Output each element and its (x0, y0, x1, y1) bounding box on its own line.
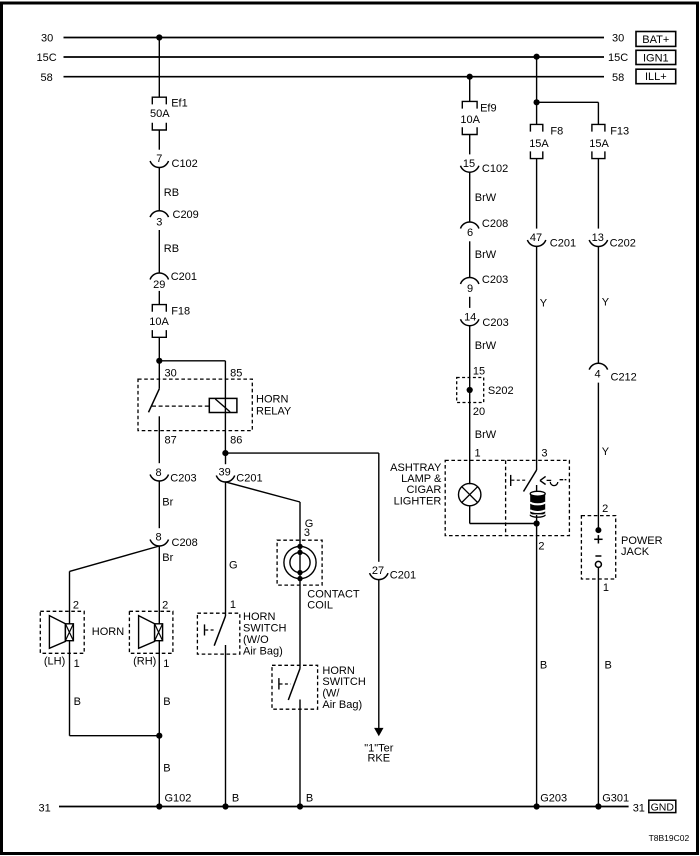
connector C208 pin 6 (460, 222, 478, 228)
wire junction to F13 (597, 102, 599, 124)
horn RH box (129, 611, 173, 653)
svg-text:3: 3 (156, 216, 162, 228)
wire junction to relay coil 85 (159, 360, 225, 362)
svg-text:10A: 10A (460, 114, 480, 126)
svg-text:B: B (232, 793, 239, 805)
wire F8 to C201-47 (536, 159, 538, 229)
svg-text:15C: 15C (608, 52, 628, 64)
svg-text:B: B (163, 763, 170, 775)
wire C203-9 to C203-14 (469, 297, 471, 308)
svg-text:C212: C212 (611, 372, 637, 384)
node bus30 junction (156, 34, 162, 40)
fuse F8 15A (530, 124, 542, 131)
svg-text:BAT+: BAT+ (642, 34, 669, 46)
svg-text:(LH): (LH) (44, 655, 65, 667)
svg-text:15: 15 (473, 366, 485, 378)
svg-text:ILL+: ILL+ (645, 71, 667, 83)
svg-text:3: 3 (541, 448, 547, 460)
relay coil U1 (209, 398, 237, 412)
wire 86 junction to RKE branch (226, 452, 379, 454)
bus 30 (BAT+) (64, 37, 605, 39)
node G102 (156, 803, 162, 809)
svg-text:Br: Br (162, 552, 173, 564)
wire LH to RH link (70, 735, 160, 737)
bus 31 (GND) (59, 806, 629, 808)
svg-text:G301: G301 (602, 793, 629, 805)
wire C102 to C208, colour BrW (469, 172, 471, 222)
connector C203 pin 8 (150, 475, 168, 481)
connector C208 pin 8 (150, 540, 168, 546)
svg-text:BrW: BrW (475, 429, 497, 441)
svg-text:30: 30 (165, 368, 177, 380)
svg-text:15: 15 (463, 158, 475, 170)
horn switch W/ arm (288, 669, 300, 701)
svg-text:30: 30 (612, 33, 624, 45)
svg-text:CIGAR: CIGAR (406, 484, 441, 496)
power jack plus terminal (595, 527, 601, 533)
svg-text:30: 30 (41, 33, 53, 45)
svg-text:Y: Y (602, 297, 610, 309)
svg-text:C203: C203 (482, 317, 508, 329)
connector C201 pin 29 (150, 273, 168, 279)
cigar lighter switch arm (524, 470, 537, 492)
svg-text:Air Bag): Air Bag) (243, 645, 283, 657)
svg-text:C102: C102 (482, 163, 508, 175)
BAT+ box (636, 32, 676, 47)
svg-text:1: 1 (163, 658, 169, 670)
svg-text:3: 3 (304, 527, 310, 539)
svg-text:86: 86 (230, 435, 242, 447)
relay switch fixed contact wire (pin 87) (158, 416, 160, 463)
svg-text:(W/O: (W/O (243, 634, 269, 646)
svg-text:C209: C209 (173, 209, 199, 221)
horn RH speaker (139, 616, 155, 649)
svg-text:2: 2 (162, 600, 168, 612)
svg-text:C201: C201 (390, 570, 416, 582)
node 15C junction (534, 54, 540, 60)
svg-text:C201: C201 (236, 473, 262, 485)
connector C202 pin 13 (589, 240, 607, 246)
svg-text:COIL: COIL (307, 600, 333, 612)
node relay feed junction (156, 358, 162, 364)
svg-text:C201: C201 (550, 238, 576, 250)
horn switch W/O arm (214, 616, 225, 646)
wire LH horn drop (69, 571, 71, 735)
wire 86 junction to C201-39 (225, 453, 227, 464)
wire lighter to ground (536, 515, 538, 807)
svg-text:1: 1 (230, 599, 236, 611)
svg-text:58: 58 (41, 72, 53, 84)
svg-text:27: 27 (372, 565, 384, 577)
contact coil rings (284, 546, 316, 578)
wire Ef1 to C102 (158, 130, 160, 150)
svg-text:15C: 15C (37, 52, 57, 64)
svg-text:HORN: HORN (256, 394, 288, 406)
cigar lighter element stub (536, 485, 538, 492)
svg-text:15A: 15A (529, 138, 549, 150)
svg-text:Y: Y (540, 298, 548, 310)
wire lamp to lighter junction (469, 506, 471, 524)
contact coil box (277, 540, 322, 585)
node bus58 junction (467, 74, 473, 80)
connector C201 pin 39 (216, 476, 234, 482)
svg-text:31: 31 (39, 803, 51, 815)
wire C102 to C209, colour RB (158, 168, 160, 211)
connector C203 pin 9 (460, 277, 478, 283)
node G301 (595, 803, 601, 809)
svg-text:1: 1 (603, 582, 609, 594)
svg-text:IGN1: IGN1 (643, 52, 669, 64)
wire C203-14 to lamp, colour BrW (469, 326, 471, 485)
svg-text:47: 47 (530, 232, 542, 244)
svg-text:ASHTRAY: ASHTRAY (390, 462, 442, 474)
svg-text:58: 58 (612, 72, 624, 84)
svg-text:C203: C203 (170, 473, 196, 485)
wire F13 to C202-13 (597, 159, 599, 229)
fuse F18 10A (152, 305, 166, 312)
connector C201 pin 47 (527, 240, 545, 246)
svg-text:F18: F18 (171, 306, 190, 318)
bus 15C (IGN1) (64, 56, 605, 58)
svg-text:1: 1 (74, 658, 80, 670)
svg-text:C208: C208 (482, 218, 508, 230)
splice S202 (457, 378, 484, 403)
svg-text:50A: 50A (150, 108, 170, 120)
node G203 (534, 803, 540, 809)
wire C208 to RH horn and ground, colour Br (158, 546, 160, 807)
svg-text:BrW: BrW (475, 249, 497, 261)
svg-text:S202: S202 (488, 385, 514, 397)
svg-text:2: 2 (538, 541, 544, 553)
svg-text:20: 20 (473, 406, 485, 418)
svg-text:9: 9 (467, 283, 473, 295)
svg-text:(RH): (RH) (133, 655, 156, 667)
svg-text:BrW: BrW (475, 340, 497, 352)
svg-text:Ef9: Ef9 (480, 103, 497, 115)
svg-text:6: 6 (467, 227, 473, 239)
horn switch (W/O Air Bag) box (197, 613, 239, 654)
svg-text:B: B (74, 696, 81, 708)
svg-text:10A: 10A (149, 316, 169, 328)
svg-text:Br: Br (162, 497, 173, 509)
svg-text:8: 8 (156, 531, 162, 543)
svg-text:C203: C203 (482, 274, 508, 286)
connector C209 pin 3 (150, 211, 168, 217)
svg-text:7: 7 (156, 153, 162, 165)
power jack minus terminal (595, 555, 601, 557)
relay actuating link (dashed) (152, 405, 209, 407)
wire C212 to power jack, colour Y (597, 383, 599, 530)
wire bus30 to fuse Ef1 (158, 38, 160, 98)
svg-text:1: 1 (475, 448, 481, 460)
svg-text:GND: GND (651, 801, 675, 813)
svg-text:13: 13 (592, 232, 604, 244)
wire Ef9 to C102-15 (469, 135, 471, 155)
wire C201-47 to lighter switch, colour Y (536, 246, 538, 470)
svg-text:31: 31 (633, 803, 645, 815)
ashtray lamp bulb (459, 483, 481, 505)
wire 15C to F8 (536, 57, 538, 125)
svg-text:4: 4 (595, 368, 601, 380)
node ground B junction 2 (297, 803, 303, 809)
wire C208 to C203, colour BrW (469, 241, 471, 277)
ILL+ box (636, 69, 676, 84)
svg-text:BrW: BrW (475, 192, 497, 204)
svg-text:SWITCH: SWITCH (243, 622, 286, 634)
svg-text:RB: RB (164, 243, 179, 255)
svg-text:RB: RB (164, 187, 179, 199)
cigar lighter release arrow (540, 476, 546, 484)
svg-text:T8B19C02: T8B19C02 (649, 833, 690, 843)
connector C203 pin 14 (460, 319, 478, 325)
arrow to 1 Ter RKE (374, 728, 383, 736)
svg-text:87: 87 (165, 435, 177, 447)
horn switch (W/ Air Bag) box (272, 665, 318, 709)
node lighter junction (534, 520, 540, 526)
svg-text:B: B (605, 660, 612, 672)
svg-text:LIGHTER: LIGHTER (394, 495, 442, 507)
svg-text:B: B (163, 696, 170, 708)
horn LH box (40, 611, 84, 653)
wire C202 to C212, colour Y (597, 246, 599, 363)
wire contact coil drop, colour G (299, 502, 301, 669)
wire C201-39 to horn switch, colour G (225, 482, 227, 616)
cigar lighter heating element (530, 494, 545, 515)
svg-text:G: G (229, 560, 238, 572)
fuse Ef9 10A (462, 101, 477, 108)
svg-text:14: 14 (464, 312, 476, 324)
svg-text:C208: C208 (172, 537, 198, 549)
fuse F13 15A (592, 124, 605, 131)
ashtray box divider (505, 460, 507, 535)
svg-text:2: 2 (73, 600, 79, 612)
wire C201 to fuse F18 (158, 291, 160, 305)
wire bus58 to fuse Ef9 (469, 77, 471, 102)
svg-text:Y: Y (602, 446, 610, 458)
ashtray lamp & cigar lighter box (445, 460, 569, 535)
svg-text:85: 85 (230, 368, 242, 380)
svg-text:B: B (306, 793, 313, 805)
svg-text:(W/: (W/ (322, 688, 340, 700)
wire F18 to relay (158, 337, 160, 389)
horn switch W/ actuator (278, 678, 280, 689)
node ground B junction 1 (222, 803, 228, 809)
svg-text:C201: C201 (171, 271, 197, 283)
horn switch W/O actuator (204, 624, 206, 635)
wire C209 to C201, colour RB (158, 230, 160, 273)
wire branch to LH horn (diagonal) (70, 546, 160, 571)
svg-text:HORN: HORN (243, 611, 275, 623)
svg-text:G203: G203 (540, 793, 567, 805)
svg-text:Air Bag): Air Bag) (322, 699, 362, 711)
svg-text:C102: C102 (172, 158, 198, 170)
GND box (649, 800, 676, 812)
svg-text:HORN: HORN (92, 626, 124, 638)
cigar lighter switch actuator (510, 475, 512, 486)
node relay output junction (222, 450, 228, 456)
horn relay box (138, 379, 252, 431)
horn LH speaker (49, 616, 65, 649)
svg-text:8: 8 (156, 467, 162, 479)
svg-text:F13: F13 (610, 126, 629, 138)
node horn ground junction (156, 733, 162, 739)
connector C201 pin 27 (370, 573, 388, 579)
wire horn switch W/ to ground (299, 700, 301, 807)
svg-text:RKE: RKE (367, 753, 390, 765)
relay switch arm (149, 389, 160, 413)
fuse Ef1 50A (152, 97, 166, 104)
svg-text:Ef1: Ef1 (171, 98, 188, 110)
wire RKE drop lower (378, 580, 380, 729)
svg-text:CONTACT: CONTACT (307, 588, 360, 600)
svg-text:HORN: HORN (322, 665, 354, 677)
wire horn switch W/O to ground (225, 645, 227, 807)
svg-text:29: 29 (153, 279, 165, 291)
IGN1 box (636, 50, 676, 64)
wire relay coil vertical 85-86 (224, 361, 226, 453)
svg-text:39: 39 (218, 466, 230, 478)
connector C102 pin 7 (150, 161, 168, 167)
svg-text:2: 2 (602, 503, 608, 515)
svg-text:F8: F8 (550, 126, 563, 138)
svg-text:SWITCH: SWITCH (322, 676, 365, 688)
svg-text:B: B (540, 660, 547, 672)
svg-text:RELAY: RELAY (256, 405, 292, 417)
node F13 branch junction (534, 99, 540, 105)
bus 58 (ILL+) (64, 76, 605, 78)
wire C203 to C208, colour Br (158, 481, 160, 528)
wire RKE drop upper (378, 453, 380, 562)
svg-text:C202: C202 (610, 237, 636, 249)
wire power jack to ground (597, 567, 599, 806)
svg-text:G102: G102 (165, 793, 192, 805)
svg-text:15A: 15A (589, 138, 609, 150)
wire C201-39 to contact coil (diagonal) (226, 482, 301, 502)
power jack box (581, 516, 615, 579)
connector C212 pin 4 (589, 363, 607, 369)
svg-text:JACK: JACK (621, 546, 650, 558)
wire branch to F13 (537, 101, 599, 103)
connector C102 pin 15 (460, 166, 478, 172)
